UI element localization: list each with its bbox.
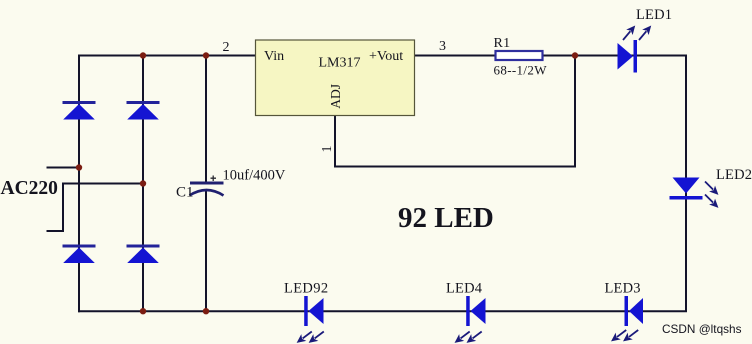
svg-text:LED1: LED1 xyxy=(636,7,672,23)
svg-text:ADJ: ADJ xyxy=(328,84,343,109)
svg-text:3: 3 xyxy=(439,39,446,54)
svg-text:2: 2 xyxy=(223,40,230,55)
svg-text:Vin: Vin xyxy=(264,49,284,64)
svg-text:R1: R1 xyxy=(494,36,511,51)
svg-text:LED2: LED2 xyxy=(716,167,752,183)
svg-text:LED3: LED3 xyxy=(605,281,641,297)
svg-text:68--1/2W: 68--1/2W xyxy=(494,62,548,77)
svg-text:LM317: LM317 xyxy=(319,56,361,71)
svg-text:AC220: AC220 xyxy=(1,178,58,199)
svg-text:92 LED: 92 LED xyxy=(398,202,494,234)
svg-text:LED4: LED4 xyxy=(446,281,483,297)
svg-text:1: 1 xyxy=(320,146,335,153)
svg-text:+Vout: +Vout xyxy=(369,49,403,64)
svg-text:LED92: LED92 xyxy=(284,281,328,297)
svg-text:10uf/400V: 10uf/400V xyxy=(223,168,286,184)
svg-text:C1: C1 xyxy=(176,185,194,201)
svg-text:CSDN @ltqshs: CSDN @ltqshs xyxy=(662,322,742,336)
